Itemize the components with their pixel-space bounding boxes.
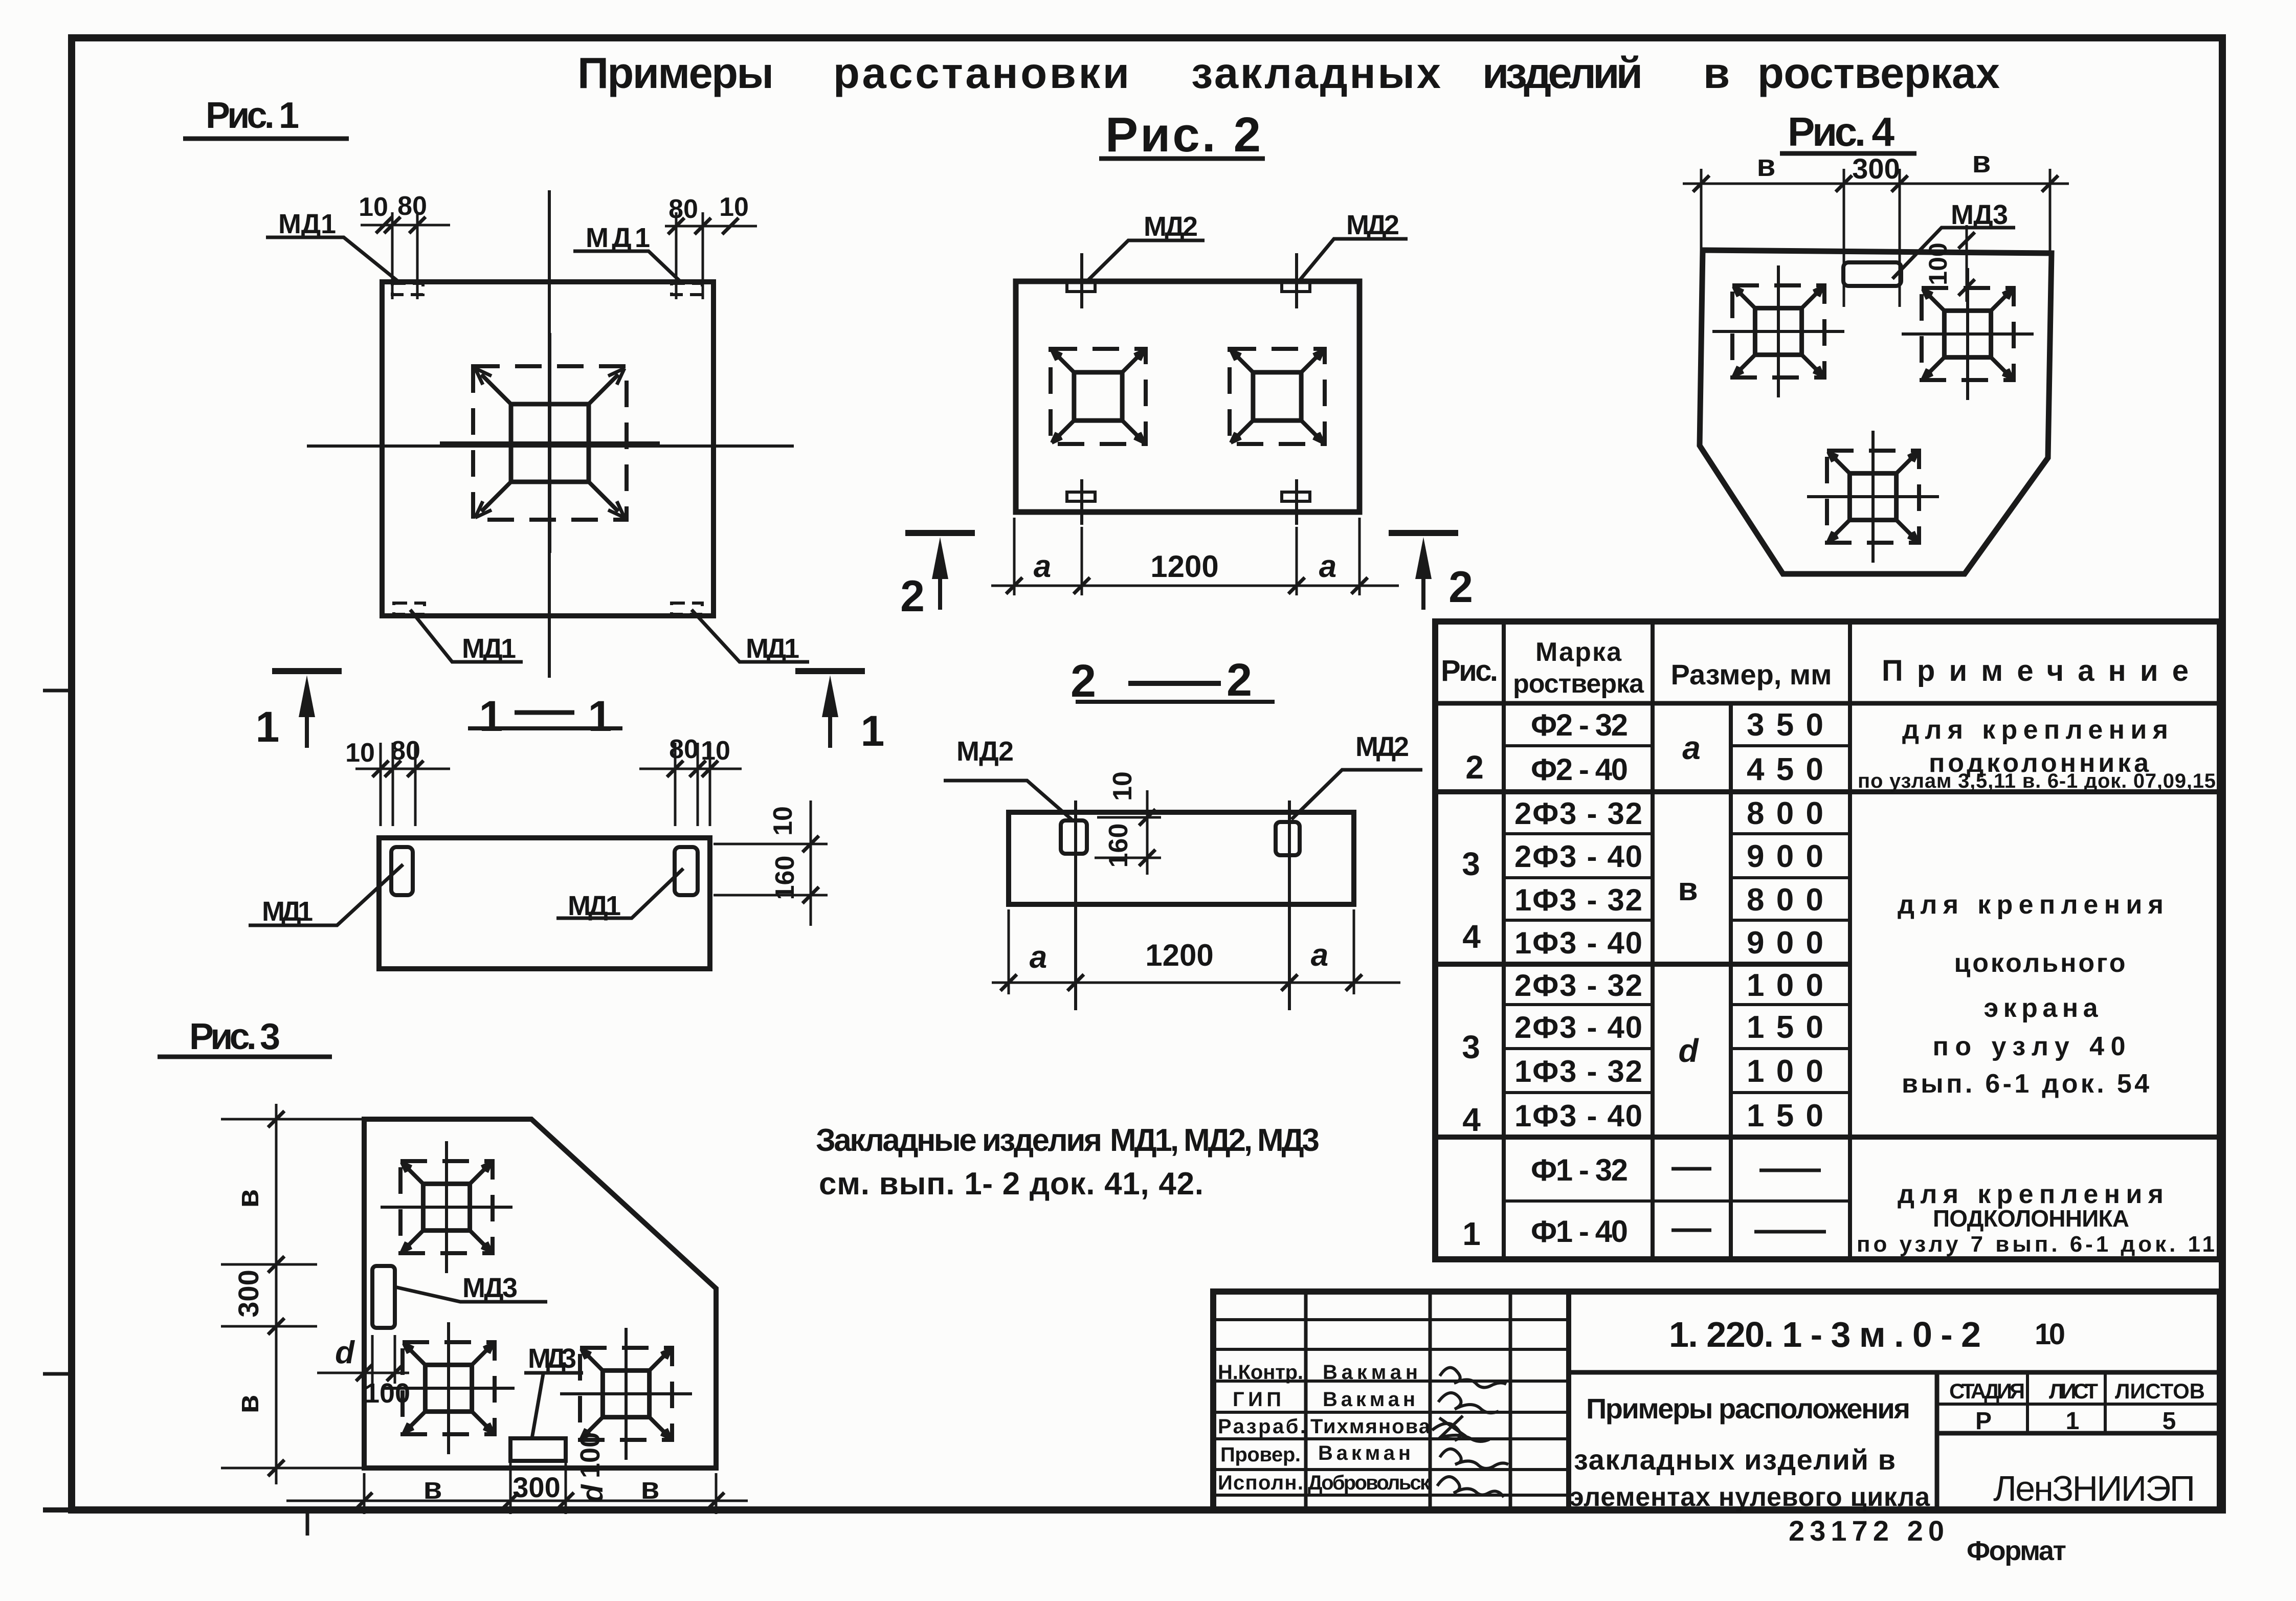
svg-text:100: 100	[1747, 1054, 1823, 1089]
svg-text:10: 10	[345, 738, 375, 768]
svg-text:800: 800	[1747, 796, 1823, 831]
svg-text:Марка: Марка	[1535, 637, 1622, 667]
fig1 grillage outline	[382, 282, 714, 616]
svg-text:Провер.: Провер.	[1220, 1443, 1301, 1466]
svg-text:СТАДИЯ: СТАДИЯ	[1949, 1379, 2025, 1403]
fig1 caption	[183, 95, 349, 139]
svg-text:a: a	[1682, 729, 1701, 766]
fold mark lower	[43, 1372, 72, 1376]
svg-text:Примеры: Примеры	[577, 49, 774, 98]
svg-text:Вакман: Вакман	[1318, 1442, 1411, 1464]
svg-text:a: a	[1319, 549, 1336, 584]
fig4 plate MD3	[1843, 262, 1901, 286]
svg-text:Ф1 - 40: Ф1 - 40	[1531, 1214, 1628, 1249]
svg-text:ростверках: ростверках	[1757, 49, 2000, 98]
signature squiggles	[1432, 1368, 1508, 1497]
fig2 plate MD2 top-right	[1282, 253, 1310, 308]
svg-text:a: a	[1030, 940, 1047, 975]
svg-text:ГИП: ГИП	[1233, 1388, 1281, 1411]
svg-text:80: 80	[669, 735, 699, 764]
svg-text:Примеры расположения: Примеры расположения	[1586, 1392, 1910, 1425]
svg-text:10: 10	[768, 806, 798, 836]
fig3 pile top	[381, 1141, 512, 1273]
svg-text:изделий: изделий	[1482, 49, 1643, 98]
svg-text:10: 10	[1108, 771, 1138, 801]
section 1-1 caption	[468, 692, 622, 740]
svg-text:900: 900	[1747, 839, 1823, 874]
fig1 label MD1 top-left	[266, 209, 400, 283]
fig4 caption	[1780, 109, 1916, 154]
svg-text:10: 10	[2035, 1318, 2065, 1351]
svg-text:в: в	[231, 1395, 265, 1414]
svg-text:5: 5	[2163, 1408, 2176, 1435]
svg-text:100: 100	[1924, 242, 1952, 285]
bottom frame left extension	[43, 1507, 72, 1513]
section 2-2 dimension 10,160	[1095, 771, 1161, 875]
svg-text:2: 2	[1227, 655, 1252, 706]
svg-text:1: 1	[861, 707, 885, 755]
fig3 plate MD3 left	[372, 1266, 395, 1328]
fig3 pile bottom-left	[383, 1322, 515, 1454]
svg-text:экрана: экрана	[1984, 993, 2099, 1023]
svg-text:3: 3	[1462, 1029, 1480, 1065]
format mark bottom	[306, 1510, 309, 1536]
fig2 plate MD2 top-left	[1067, 253, 1095, 308]
fig3 bottom dimension chain	[286, 1432, 748, 1514]
fig1 plate MD1 top-left	[392, 283, 423, 295]
svg-text:для крепления: для крепления	[1898, 890, 2164, 920]
fig1 label MD1 bottom-right	[692, 610, 809, 664]
section 1-1 dimension 10,160 right side	[714, 800, 828, 926]
fig1 horizontal centerline	[307, 444, 794, 448]
svg-text:150: 150	[1747, 1098, 1823, 1133]
svg-text:1: 1	[588, 692, 612, 740]
svg-text:1: 1	[1462, 1215, 1481, 1252]
fig4 dimension 100 at plate	[1924, 225, 1975, 302]
svg-text:100: 100	[1747, 968, 1823, 1003]
fig4 pile right	[1902, 268, 2034, 400]
svg-text:Рис. 1: Рис. 1	[206, 95, 299, 136]
svg-text:закладных изделий в: закладных изделий в	[1574, 1443, 1896, 1476]
table col4 size values	[1747, 707, 1826, 1232]
fig1 label MD1 bottom-left	[410, 610, 523, 664]
svg-text:10: 10	[719, 192, 749, 222]
fold mark upper	[43, 689, 72, 693]
svg-text:d: d	[335, 1335, 355, 1370]
svg-text:элементах нулевого цикла: элементах нулевого цикла	[1569, 1482, 1930, 1512]
fig3 label MD3 left	[395, 1273, 547, 1303]
fig2 section mark 2 left	[900, 533, 975, 621]
svg-text:Рис.: Рис.	[1441, 654, 1498, 687]
fig2 section mark 2 right	[1389, 533, 1473, 612]
fig2 pile left	[1051, 349, 1146, 444]
fig1 section mark 1 right	[795, 671, 884, 755]
table note group 4	[1857, 1180, 2215, 1257]
svg-text:Разраб.: Разраб.	[1218, 1415, 1306, 1438]
table note group 1	[1858, 715, 2216, 792]
svg-text:Ф1 - 32: Ф1 - 32	[1531, 1153, 1628, 1187]
svg-text:МД1: МД1	[262, 896, 313, 927]
svg-text:в: в	[1678, 871, 1698, 907]
svg-text:в: в	[1972, 145, 1991, 179]
svg-text:4: 4	[1462, 1101, 1481, 1138]
svg-text:160: 160	[1104, 824, 1133, 868]
section 2-2 label MD2 left	[944, 736, 1072, 819]
svg-text:по узлу 40: по узлу 40	[1933, 1032, 2126, 1061]
svg-text:ЛИСТ: ЛИСТ	[2049, 1379, 2098, 1403]
svg-text:вып. 6-1 док. 54: вып. 6-1 док. 54	[1902, 1069, 2149, 1099]
fig4 label MD3	[1892, 199, 2015, 279]
fig3 grillage outline	[364, 1119, 716, 1468]
table col1 figure numbers	[1462, 749, 1484, 1252]
section 2-2 plate MD2 right	[1276, 800, 1300, 1010]
svg-text:80: 80	[397, 191, 427, 221]
section 1-1 plate MD1 left	[391, 847, 413, 895]
svg-text:МД1: МД1	[746, 633, 799, 664]
fig2 dimension a,1200,a	[991, 518, 1399, 595]
svg-text:по узлам 3,5,11 в. 6-1 док. 07: по узлам 3,5,11 в. 6-1 док. 07,09,15	[1858, 770, 2216, 792]
svg-text:МД2: МД2	[1346, 210, 1399, 240]
svg-text:в: в	[1757, 148, 1776, 183]
svg-text:ЛенЗНИИЭП: ЛенЗНИИЭП	[1993, 1469, 2195, 1508]
fig4 grillage outline	[1700, 250, 2052, 574]
svg-text:1: 1	[256, 703, 280, 751]
svg-text:a: a	[1034, 549, 1051, 584]
table col2 grillage marks	[1514, 708, 1642, 1249]
section 1-1 dimension 10,80 left	[345, 736, 450, 826]
svg-text:в: в	[1703, 49, 1730, 98]
section 1-1 label MD1 right	[556, 869, 683, 921]
section 1-1 dimension 80,10 right	[639, 735, 742, 826]
svg-text:350: 350	[1747, 707, 1823, 743]
svg-text:2: 2	[900, 572, 925, 621]
section 2-2 plate MD2 left	[1061, 800, 1087, 1010]
fig3 plate MD3 bottom	[510, 1438, 566, 1461]
svg-text:расстановки: расстановки	[833, 49, 1129, 98]
svg-text:Рис. 3: Рис. 3	[189, 1016, 280, 1057]
svg-text:ЛИСТОВ: ЛИСТОВ	[2115, 1379, 2205, 1403]
fig3 caption	[158, 1016, 332, 1057]
svg-text:2Ф3 - 40: 2Ф3 - 40	[1514, 839, 1642, 874]
fig2 plate MD2 bottom-right	[1282, 479, 1310, 525]
fig2 label MD2 right	[1299, 210, 1408, 281]
svg-text:Н.Контр.: Н.Контр.	[1218, 1361, 1303, 1384]
fig1 section mark 1 left	[256, 671, 342, 751]
svg-text:Добровольск: Добровольск	[1308, 1472, 1431, 1494]
svg-text:Ф2 - 32: Ф2 - 32	[1531, 708, 1628, 742]
svg-text:1Ф3 - 32: 1Ф3 - 32	[1514, 883, 1642, 917]
svg-text:2Ф3 - 32: 2Ф3 - 32	[1514, 968, 1642, 1003]
fig2 plate MD2 bottom-left	[1067, 479, 1095, 525]
svg-text:МД2: МД2	[1355, 731, 1409, 762]
svg-text:d: d	[1678, 1032, 1699, 1069]
fig1 plate MD1 bottom-left	[394, 603, 425, 614]
sheet title	[577, 49, 2000, 98]
svg-text:МД1: МД1	[278, 209, 336, 239]
svg-text:2: 2	[1465, 749, 1484, 786]
fig2 label MD2 left	[1086, 211, 1205, 282]
svg-text:Вакман: Вакман	[1323, 1388, 1415, 1411]
section 1-1 plate MD1 right	[675, 847, 698, 895]
svg-text:150: 150	[1747, 1010, 1823, 1045]
fig1 label MD1 top-right	[573, 223, 682, 283]
svg-text:цокольного: цокольного	[1954, 948, 2126, 978]
svg-text:800: 800	[1747, 882, 1823, 918]
fig2 caption	[1099, 107, 1265, 162]
svg-text:300: 300	[512, 1471, 560, 1503]
svg-text:МД3: МД3	[462, 1273, 518, 1303]
fig1 plate MD1 bottom-right	[672, 603, 702, 614]
fig1 plate MD1 top-right	[672, 283, 702, 295]
svg-text:1Ф3 - 40: 1Ф3 - 40	[1514, 1099, 1642, 1133]
svg-text:3: 3	[1462, 846, 1480, 882]
fig1 dimension 80,10 right	[665, 192, 757, 299]
svg-text:МД1, МД2, МД3: МД1, МД2, МД3	[1110, 1123, 1320, 1158]
table grid	[1435, 621, 2220, 1259]
fig4 dimension в,300,в top	[1683, 145, 2069, 307]
fig1 pile	[440, 333, 660, 553]
section 1-1 grillage elevation	[379, 838, 710, 969]
svg-text:160: 160	[770, 856, 800, 900]
svg-text:23172 20: 23172 20	[1789, 1515, 1944, 1547]
svg-text:1200: 1200	[1145, 938, 1213, 972]
svg-text:см. вып. 1- 2 док. 41, 42.: см. вып. 1- 2 док. 41, 42.	[819, 1166, 1203, 1202]
fig2 grillage outline	[1016, 281, 1359, 512]
svg-text:Формат: Формат	[1967, 1536, 2066, 1566]
svg-text:Рис. 2: Рис. 2	[1105, 107, 1261, 162]
svg-text:Размер, мм: Размер, мм	[1671, 658, 1832, 691]
project name	[1569, 1392, 1930, 1512]
svg-text:по узлу 7 вып. 6-1 док. 11: по узлу 7 вып. 6-1 док. 11	[1857, 1232, 2215, 1257]
svg-text:300: 300	[1852, 152, 1900, 185]
svg-text:900: 900	[1747, 925, 1823, 961]
fig1 dimension 10,80 left	[359, 191, 450, 299]
svg-text:100: 100	[364, 1378, 410, 1409]
svg-text:Закладные изделия: Закладные изделия	[816, 1123, 1102, 1158]
signature table texts	[1218, 1361, 1431, 1494]
stage/sheet headers	[1949, 1379, 2205, 1435]
svg-text:в: в	[423, 1471, 442, 1505]
svg-text:2Ф3 - 40: 2Ф3 - 40	[1514, 1010, 1642, 1044]
svg-text:МД3: МД3	[1951, 199, 2008, 230]
svg-text:закладных: закладных	[1191, 49, 1441, 98]
svg-text:2: 2	[1071, 656, 1096, 707]
svg-text:1Ф3 - 40: 1Ф3 - 40	[1514, 926, 1642, 960]
note text	[816, 1123, 1320, 1202]
svg-text:d: d	[576, 1484, 609, 1503]
svg-text:a: a	[1311, 938, 1328, 973]
svg-text:1: 1	[2066, 1408, 2080, 1435]
svg-text:2: 2	[1448, 563, 1473, 612]
svg-text:1Ф3 - 32: 1Ф3 - 32	[1514, 1054, 1642, 1088]
svg-text:4: 4	[1462, 918, 1481, 955]
svg-text:100: 100	[575, 1432, 606, 1478]
svg-text:ПОДКОЛОННИКА: ПОДКОЛОННИКА	[1933, 1205, 2129, 1232]
title block grid	[1213, 1292, 2220, 1510]
svg-text:300: 300	[232, 1270, 264, 1317]
svg-text:1200: 1200	[1150, 549, 1218, 584]
fig3 left dimension chain	[221, 1104, 364, 1484]
section 1-1 label MD1 left	[249, 864, 403, 927]
svg-text:в: в	[641, 1471, 660, 1505]
svg-text:2Ф3 - 32: 2Ф3 - 32	[1514, 796, 1642, 831]
svg-text:МД2: МД2	[956, 736, 1014, 767]
section 2-2 label MD2 right	[1291, 731, 1422, 819]
svg-text:450: 450	[1747, 752, 1823, 787]
fig3 dimension d,100 left	[317, 1335, 410, 1409]
svg-text:Рис. 4: Рис. 4	[1788, 109, 1895, 154]
svg-text:Ф2 - 40: Ф2 - 40	[1531, 752, 1628, 787]
svg-text:Исполн.: Исполн.	[1218, 1472, 1303, 1494]
svg-text:1: 1	[479, 692, 503, 740]
svg-text:в: в	[231, 1189, 265, 1208]
fig4 pile left	[1712, 265, 1844, 397]
svg-text:Тихмянова: Тихмянова	[1310, 1415, 1431, 1438]
svg-text:1. 220. 1 - 3 м . 0 - 2: 1. 220. 1 - 3 м . 0 - 2	[1669, 1315, 1981, 1354]
fig2 pile right	[1230, 349, 1325, 444]
svg-text:для крепления: для крепления	[1902, 715, 2168, 745]
table note group 2-3	[1898, 890, 2164, 1099]
svg-text:МД2: МД2	[1144, 211, 1198, 242]
section 2-2 grillage elevation	[1009, 812, 1354, 904]
svg-text:МД3: МД3	[528, 1343, 576, 1374]
fig3 pile bottom-right	[560, 1328, 692, 1460]
section 2-2 caption	[1071, 655, 1275, 707]
svg-text:МД1: МД1	[586, 223, 650, 253]
table col3 size letters	[1671, 729, 1711, 1230]
fig1 vertical centerline	[548, 190, 551, 678]
svg-text:Р: Р	[1975, 1408, 1992, 1435]
fig3 label MD3 bottom	[524, 1343, 583, 1438]
svg-text:МД1: МД1	[462, 633, 516, 664]
fig4 pile bottom	[1807, 431, 1939, 563]
svg-text:Примечание: Примечание	[1882, 654, 2189, 687]
section 2-2 dimension a,1200,a	[992, 909, 1400, 994]
svg-text:10: 10	[359, 192, 388, 222]
table header	[1441, 637, 2189, 699]
svg-text:ростверка: ростверка	[1513, 669, 1644, 699]
